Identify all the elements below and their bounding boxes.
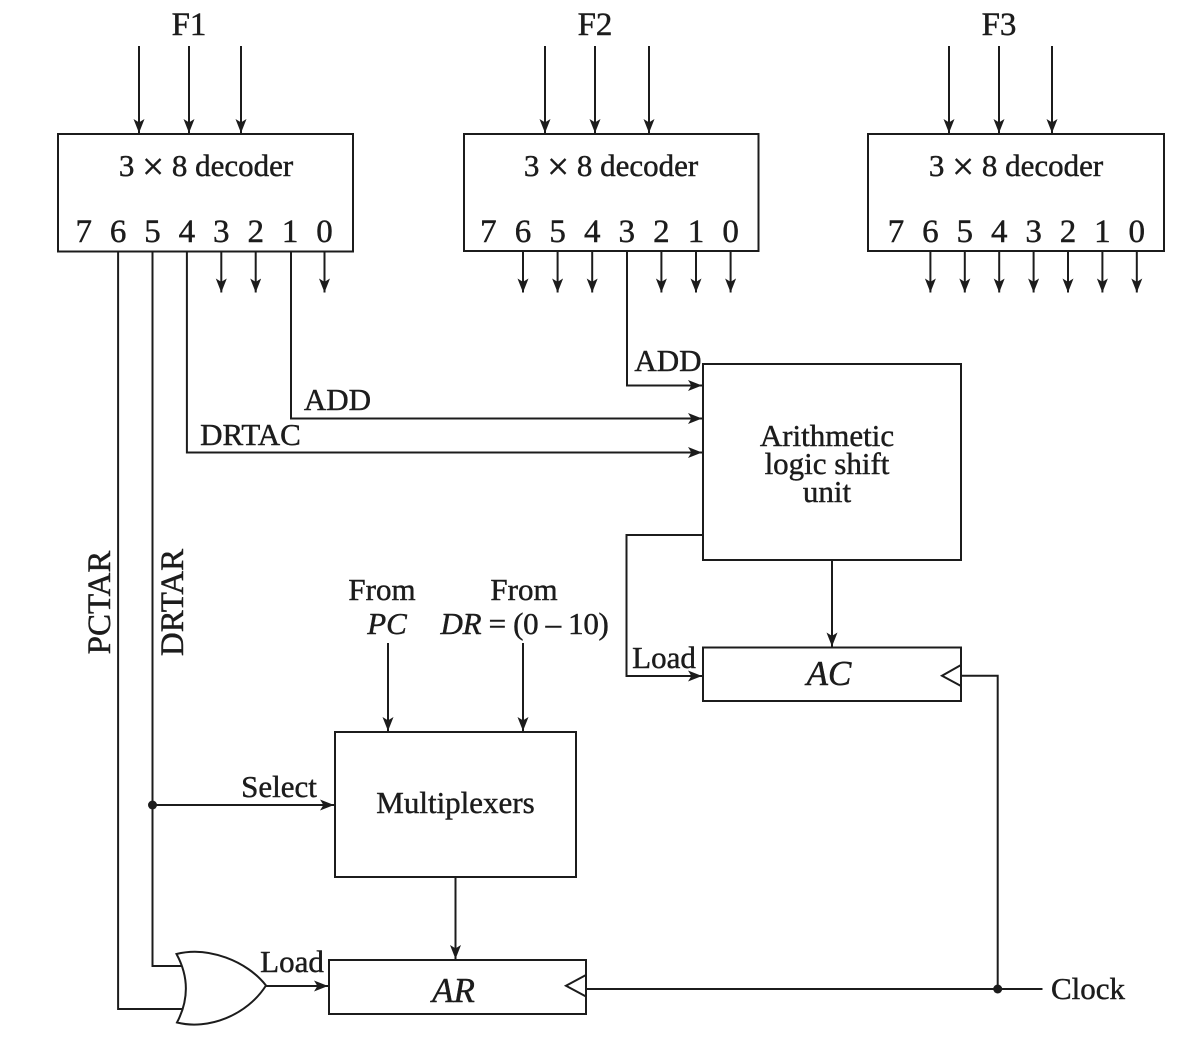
svg-text:ADD: ADD — [304, 382, 371, 417]
svg-text:AR: AR — [430, 971, 475, 1010]
register AR box — [329, 960, 586, 1014]
wire U2 output 2 short arrow — [660, 251, 662, 293]
wire F3 input 1 — [948, 46, 950, 133]
wire ADD from U2 pin3 to ALU — [627, 251, 702, 386]
svg-text:F1: F1 — [172, 7, 207, 43]
junction dot on DRTAR select — [148, 801, 157, 810]
wire ALU to AC — [831, 560, 833, 647]
svg-text:DR = (0 – 10): DR = (0 – 10) — [440, 606, 609, 641]
register AR clock wedge — [566, 975, 586, 997]
OR gate G1 — [177, 952, 267, 1025]
wire multiplexers to AR — [455, 877, 457, 959]
decoder U3 box — [868, 134, 1164, 251]
wire U2 output 6 short arrow — [522, 251, 524, 293]
junction dot on clock line — [993, 985, 1002, 994]
svg-text:DRTAC: DRTAC — [200, 417, 301, 452]
wire U3 output 6 short arrow — [929, 251, 931, 293]
svg-text:76543210: 76543210 — [480, 214, 739, 250]
wire U2 output 1 short arrow — [695, 251, 697, 293]
wire Select from DRTAR junction to multiplexers — [153, 804, 335, 806]
wire DRTAR from U1 pin5 to OR gate — [153, 252, 185, 967]
svg-text:Multiplexers: Multiplexers — [376, 785, 534, 820]
svg-text:76543210: 76543210 — [888, 214, 1145, 250]
wire U2 output 0 short arrow — [730, 251, 732, 293]
wire F1 input 1 — [138, 46, 140, 133]
wire U2 output 5 short arrow — [557, 251, 559, 293]
register AC clock wedge — [942, 665, 961, 686]
wire clock from AC to junction — [961, 676, 998, 989]
multiplexers U5 box — [335, 732, 576, 877]
wire U3 output 3 short arrow — [1033, 251, 1035, 293]
svg-text:ADD: ADD — [634, 343, 701, 378]
svg-text:Clock: Clock — [1051, 971, 1126, 1006]
wire F3 input 3 — [1051, 46, 1053, 133]
svg-text:From: From — [490, 572, 557, 607]
svg-text:F2: F2 — [578, 7, 613, 43]
wire F2 input 1 — [544, 46, 546, 133]
svg-text:3 × 8 decoder: 3 × 8 decoder — [524, 146, 699, 189]
wire U3 output 4 short arrow — [998, 251, 1000, 293]
wire U2 output 4 short arrow — [591, 251, 593, 293]
wire U3 output 0 short arrow — [1136, 251, 1138, 293]
wire U1 output 3 short arrow — [220, 252, 222, 293]
svg-text:Load: Load — [632, 640, 696, 675]
svg-text:PCTAR: PCTAR — [82, 551, 118, 655]
svg-text:unit: unit — [803, 474, 852, 509]
svg-text:Load: Load — [260, 944, 324, 979]
wire DRTAC from U1 pin4 to ALU — [187, 252, 702, 453]
wire ADD from U1 pin1 to ALU — [291, 252, 702, 419]
register AC box — [703, 648, 961, 702]
wire F3 input 2 — [998, 46, 1000, 133]
wire U1 output 0 short arrow — [324, 252, 326, 293]
wire F2 input 2 — [594, 46, 596, 133]
wire From PC into multiplexers — [387, 643, 389, 731]
wire PCTAR from U1 pin6 to OR gate — [118, 252, 184, 1010]
wire OR gate output to AR — [266, 985, 328, 987]
wire F1 input 2 — [188, 46, 190, 133]
decoder U1 box — [58, 134, 353, 252]
svg-text:3 × 8 decoder: 3 × 8 decoder — [119, 146, 294, 189]
wire From DR into multiplexers — [522, 643, 524, 731]
ALU U4 box — [703, 364, 961, 560]
wire F1 input 3 — [240, 46, 242, 133]
wire U1 output 2 short arrow — [255, 252, 257, 293]
svg-text:PC: PC — [366, 606, 407, 641]
wire F2 input 3 — [648, 46, 650, 133]
svg-text:3 × 8 decoder: 3 × 8 decoder — [929, 146, 1104, 189]
svg-text:Select: Select — [241, 769, 317, 804]
wire clock horizontal into AR — [586, 988, 1043, 990]
wire U3 output 1 short arrow — [1101, 251, 1103, 293]
svg-text:76543210: 76543210 — [75, 214, 332, 250]
svg-text:DRTAR: DRTAR — [155, 549, 191, 656]
svg-text:F3: F3 — [982, 7, 1017, 43]
wire U3 output 2 short arrow — [1067, 251, 1069, 293]
wire U3 output 5 short arrow — [964, 251, 966, 293]
svg-text:From: From — [348, 572, 415, 607]
wire Load from ALU to AC — [627, 535, 704, 676]
decoder U2 box — [464, 134, 759, 251]
svg-text:AC: AC — [805, 654, 852, 693]
